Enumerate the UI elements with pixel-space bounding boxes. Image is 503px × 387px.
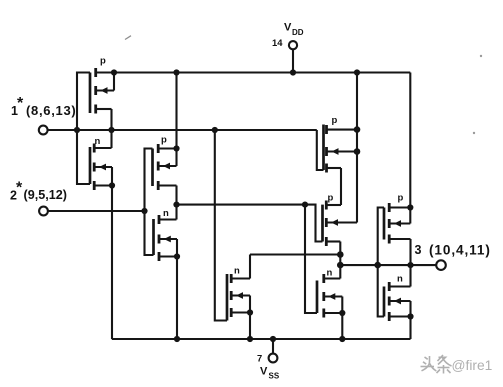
wire N3 source down to VSS rail [249, 313, 251, 340]
svg-text:7: 7 [257, 353, 262, 364]
svg-text:n: n [327, 268, 333, 279]
svg-text:p: p [328, 193, 334, 204]
VSS terminal pin 7 [269, 354, 278, 363]
wire P4 drain down through node D to node E [339, 242, 341, 266]
svg-text:V: V [284, 22, 292, 34]
transistor P5 (p-channel, output inverter) [384, 193, 411, 244]
svg-text:*: * [17, 95, 24, 112]
svg-text:(8,6,13): (8,6,13) [26, 103, 76, 118]
junction P5 source-bulk tie [407, 204, 413, 210]
output terminal 3 [436, 260, 446, 270]
input terminal 2 [39, 207, 48, 216]
label output 3 [415, 243, 491, 258]
transistor N2 (n-channel, input-2 inverter) [154, 208, 178, 261]
wire N2 drain to node C [175, 205, 177, 220]
junction node E at P5/N5 drains [407, 262, 413, 268]
transistor N5 (n-channel, output inverter) [384, 274, 411, 322]
junction VDD stem on rail [290, 69, 296, 75]
svg-text:@fire1: @fire1 [452, 358, 493, 373]
wire N2 source down to VSS rail [176, 257, 178, 340]
svg-text:DD: DD [292, 28, 304, 37]
junction N1 source-bulk tie [109, 182, 115, 188]
transistor N4 (n-channel, parallel pair) [317, 268, 342, 318]
VSS pin stem [272, 339, 274, 354]
wire P1 drain to node A [110, 109, 112, 130]
svg-text:n: n [163, 208, 169, 219]
svg-text:p: p [100, 56, 106, 67]
svg-text:(9,5,12): (9,5,12) [24, 188, 67, 202]
junction N5 source-bulk tie [407, 313, 413, 319]
label VDD pin 14 [272, 22, 304, 49]
scan speck right [473, 55, 482, 134]
scan speck top left [125, 36, 131, 40]
svg-text:14: 14 [272, 37, 283, 48]
wire gate bus of P4 from node C [305, 205, 323, 242]
wire VDD feed to P2 source [175, 73, 177, 149]
transistor N1 (n-channel, input-1 inverter) [90, 136, 112, 190]
transistor P4 (p-channel, series pair lower) [323, 193, 358, 247]
junction node C to P4/N4 gate feed [302, 202, 308, 208]
transistor P3 (p-channel, series pair upper) [324, 115, 358, 173]
junction P2 feed on VDD rail [173, 69, 179, 75]
wire N4 drain up to node E [339, 265, 341, 278]
junction node D at P4 drain [337, 251, 344, 258]
junction P1 bulk on VDD rail [111, 69, 117, 75]
VSS rail [112, 338, 411, 340]
node B: input 2 net line [48, 210, 144, 212]
junction N2 source on VSS rail [174, 336, 180, 342]
svg-text:p: p [332, 115, 338, 126]
junction P3 feed on VDD rail [354, 69, 360, 75]
junction input1-gate bus [74, 127, 80, 133]
svg-text:*: * [16, 180, 23, 197]
wire gate bus of P3 from node A [317, 130, 324, 170]
wire N3 drain up to node D [249, 255, 251, 279]
svg-text:n: n [234, 266, 240, 277]
svg-text:p: p [161, 135, 167, 146]
wire gate bus of input-2 inverter [145, 149, 154, 256]
junction N2 source-bulk tie [174, 253, 180, 259]
node D: second stage output line [250, 253, 340, 255]
junction node E at output inverter gate bus [374, 262, 381, 269]
VDD pin stem [292, 49, 294, 72]
wire gate bus of input-1 inverter [77, 73, 90, 185]
wire N4 source down to VSS rail [341, 313, 343, 339]
transistor P1 (p-channel, input-1 inverter) [90, 56, 114, 114]
wire gate feed node A down to N3 gate [215, 130, 227, 321]
label VSS pin 7 [257, 353, 280, 381]
wire N1 drain to node A [110, 130, 112, 148]
junction VSS stem on rail [270, 336, 276, 342]
junction P2 source-bulk tie [173, 145, 179, 151]
wire gate bus of output inverter [378, 208, 384, 317]
wire N5 drain up to node E [409, 265, 411, 286]
wire P3 drain down to P4 [340, 168, 342, 205]
wire gate feed node C down to N4 gate [305, 205, 317, 313]
svg-text:(10,4,11): (10,4,11) [429, 243, 491, 258]
junction N3 gate feed on node A [212, 127, 218, 133]
input terminal 1 [39, 126, 48, 135]
node A: input 1 net line [48, 129, 317, 131]
wire VDD feed column P3/P4 [356, 73, 358, 223]
wire P2 drain to node C [175, 186, 177, 205]
svg-text:V: V [260, 366, 268, 378]
junction P3 source on VDD feed [354, 126, 361, 133]
svg-text:3: 3 [415, 243, 422, 257]
junction N4 source-bulk tie [339, 310, 345, 316]
node C: inverter-2 output net line [177, 204, 306, 206]
junction node E at N4 drain [337, 262, 344, 269]
svg-text:n: n [397, 274, 403, 285]
junction input2-gate bus [141, 208, 147, 214]
svg-text:n: n [95, 136, 101, 147]
junction N3 source on VSS rail [247, 336, 253, 342]
wire N1 source down to VSS rail [111, 186, 113, 340]
svg-text:p: p [398, 193, 404, 204]
label input 2 [10, 180, 67, 203]
svg-text:SS: SS [269, 372, 280, 381]
node E: output net line [340, 264, 436, 266]
watermark [421, 355, 493, 374]
wire N5 source to VSS rail corner [409, 317, 411, 340]
junction P1/N1 drains node [108, 127, 114, 133]
VDD rail [96, 71, 411, 73]
junction N3 source-bulk tie [247, 309, 253, 315]
wire P5 drain to node E [409, 239, 411, 265]
junction N4 source on VSS rail [339, 336, 345, 342]
junction P2 drain on node C [173, 202, 179, 208]
junction P3 bulk on VDD feed [354, 148, 361, 155]
transistor N3 (n-channel, parallel pair) [227, 266, 250, 321]
transistor P2 (p-channel, input-2 inverter) [153, 135, 177, 190]
VDD terminal pin 14 [289, 41, 297, 49]
wire VDD feed to P5 source (right column from rail) [409, 73, 411, 208]
label input 1 [11, 95, 76, 118]
